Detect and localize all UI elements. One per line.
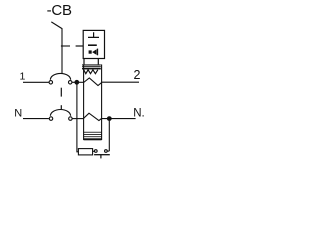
pole N contact right circle <box>69 117 73 121</box>
phase primary winding zigzag <box>84 78 102 86</box>
wire terminal 1 <box>23 81 49 83</box>
trip unit box U1 <box>83 30 104 58</box>
neutral primary winding zigzag <box>84 113 102 120</box>
trip relay symbol <box>89 49 98 56</box>
test button bridge bar <box>94 154 110 156</box>
CT core top bar <box>82 64 101 69</box>
svg-text:2: 2 <box>134 68 141 82</box>
wire terminal 2 <box>102 81 139 83</box>
linkage dash between poles <box>60 88 62 97</box>
wire resistor to test button <box>93 150 95 152</box>
bar inside box <box>88 44 97 46</box>
CT frame left side <box>83 64 85 140</box>
pole 1 contact left circle <box>49 81 53 85</box>
wire pole N to core <box>72 118 83 120</box>
wire leg left box to core <box>83 59 85 65</box>
wire terminal N. <box>102 118 136 120</box>
pole N contact left circle <box>49 117 53 121</box>
wire leg right box to core <box>97 59 99 65</box>
CT frame right side <box>101 64 103 140</box>
wire test button to riser <box>107 150 109 152</box>
test button right circle <box>105 150 108 153</box>
wire terminal N <box>23 118 49 120</box>
pole 1 bridge arc <box>50 73 70 79</box>
CT core bottom bar <box>84 132 102 141</box>
test button left circle <box>94 150 97 153</box>
test branch drop wire <box>77 84 79 151</box>
test branch riser wire <box>108 121 110 151</box>
mechanical linkage T-bar <box>61 45 70 47</box>
test symbol inside box <box>88 32 99 37</box>
svg-text:-CB: -CB <box>47 2 72 19</box>
breaker operating lever <box>51 22 62 74</box>
junction node B <box>107 116 112 121</box>
pole N bridge arc <box>50 110 70 116</box>
pole 1 contact right circle <box>68 81 72 85</box>
svg-text:N.: N. <box>133 107 145 119</box>
svg-text:N: N <box>14 107 22 119</box>
linkage dash to trip unit <box>76 45 84 47</box>
junction node A <box>74 80 79 85</box>
secondary winding zigzag <box>84 70 98 74</box>
test resistor RT <box>78 149 92 155</box>
test button stem <box>100 155 102 159</box>
wire pole 1 to core <box>72 81 83 83</box>
linkage dash to pole N <box>60 105 62 109</box>
svg-text:1: 1 <box>20 70 26 82</box>
